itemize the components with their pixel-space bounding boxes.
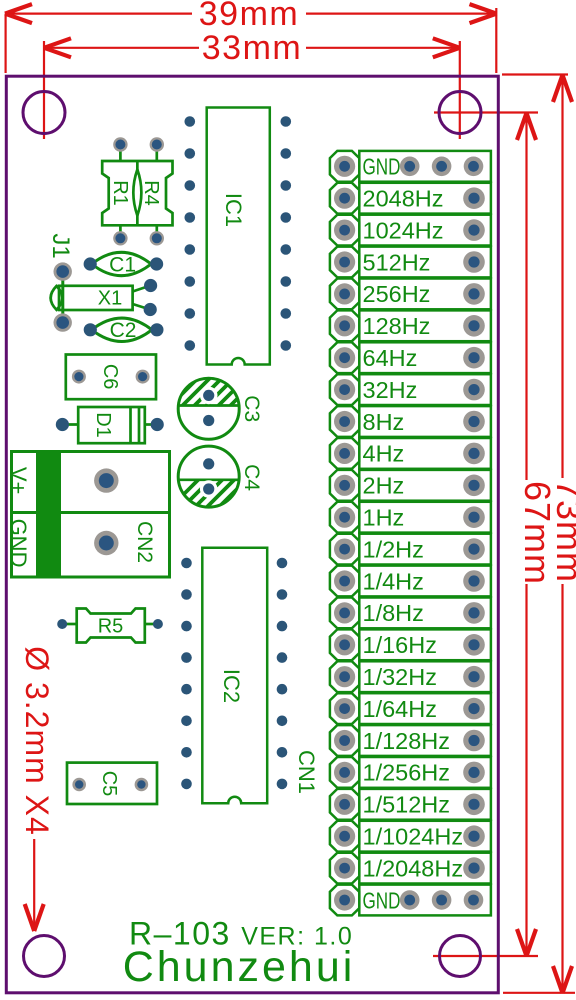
- svg-text:R1: R1: [109, 180, 131, 206]
- connector CN1 row GND pin pad: [334, 889, 355, 910]
- svg-text:R4: R4: [140, 180, 162, 206]
- svg-text:1/2048Hz: 1/2048Hz: [363, 855, 464, 881]
- svg-text:1024Hz: 1024Hz: [363, 217, 444, 243]
- svg-text:J1: J1: [47, 233, 74, 258]
- resistor R5 body: [62, 609, 158, 643]
- diode D1 pads: [56, 418, 164, 431]
- dimension 33mm line: [44, 41, 460, 139]
- connector CN1 row 1-2Hz outline: [330, 534, 491, 565]
- hole diameter leader arrowhead: [25, 904, 44, 931]
- connector CN1 row 2048Hz outline: [330, 183, 491, 214]
- svg-text:V+: V+: [6, 467, 31, 495]
- svg-text:CN1: CN1: [294, 750, 319, 794]
- mounting hole bottom-left: [24, 936, 65, 977]
- dimension 33mm arrowheads: [44, 38, 460, 57]
- svg-text:256Hz: 256Hz: [363, 281, 431, 307]
- dimension 39mm arrowheads: [5, 4, 497, 23]
- connector CN1 row GND ground pads: [400, 890, 483, 910]
- connector CN1 row 512Hz outline: [330, 247, 491, 278]
- svg-text:128Hz: 128Hz: [363, 313, 431, 339]
- connector CN1 row 1-128Hz right pad: [463, 730, 485, 752]
- connector CN1 row 1-16Hz right pad: [463, 634, 485, 656]
- connector CN1 row 1-128Hz pin pad: [334, 730, 355, 751]
- connector CN1 row 2Hz pin pad: [334, 475, 355, 496]
- connector CN1 row 128Hz pin pad: [334, 315, 355, 336]
- svg-text:1Hz: 1Hz: [363, 505, 405, 531]
- connector CN1 row 1-128Hz outline: [330, 725, 491, 756]
- connector CN1 row 1Hz outline: [330, 502, 491, 533]
- resistor R1 R4 leads: [120, 145, 156, 239]
- connector CN1 row 1-4Hz outline: [330, 566, 491, 597]
- capacitor C6 body: [66, 355, 156, 400]
- mounting hole top-right: [439, 92, 481, 134]
- connector CN1 row 1-512Hz outline: [330, 789, 491, 820]
- connector CN1 row 1-2048Hz pin pad: [334, 858, 355, 879]
- connector CN1 row 2048Hz pin pad: [334, 188, 355, 209]
- resistor R1 R4 body: [102, 161, 172, 225]
- connector CN1 row 64Hz pin pad: [334, 347, 355, 368]
- svg-text:1/32Hz: 1/32Hz: [363, 664, 437, 690]
- jumper J1 wire: [61, 272, 64, 323]
- connector CN1 row 1-1024Hz outline: [330, 821, 491, 852]
- connector CN1 row 512Hz right pad: [463, 251, 485, 273]
- connector CN1 row 1-32Hz outline: [330, 661, 491, 692]
- svg-text:2Hz: 2Hz: [363, 473, 405, 499]
- connector CN1 row 1-4Hz right pad: [463, 570, 485, 592]
- connector CN1 row 8Hz right pad: [463, 411, 485, 433]
- connector CN1 row 1-32Hz right pad: [463, 666, 485, 688]
- connector CN1 row 128Hz outline: [330, 310, 491, 341]
- dimension 67mm arrowheads: [517, 113, 536, 956]
- connector CN1 row GND pin pad: [334, 156, 355, 177]
- svg-text:C1: C1: [109, 253, 136, 276]
- svg-text:Ø 3.2mm X4: Ø 3.2mm X4: [19, 646, 55, 836]
- svg-text:CN2: CN2: [133, 521, 156, 563]
- svg-text:1/512Hz: 1/512Hz: [363, 792, 451, 818]
- connector CN1 row 64Hz right pad: [463, 347, 485, 369]
- connector CN1 row 2Hz outline: [330, 470, 491, 501]
- svg-text:1/8Hz: 1/8Hz: [363, 600, 424, 626]
- resistor R5 pads: [57, 619, 163, 629]
- svg-text:C4: C4: [240, 464, 263, 491]
- dimension 73mm arrowheads: [553, 75, 572, 993]
- connector CN1 row 256Hz outline: [330, 279, 491, 310]
- capacitor C4 pad clearance: [200, 480, 218, 498]
- svg-text:1/1024Hz: 1/1024Hz: [363, 824, 464, 850]
- connector CN1 row 1-64Hz outline: [330, 693, 491, 724]
- diode D1 body: [62, 407, 157, 443]
- crystal X1 pads: [144, 279, 158, 316]
- connector CN1 row 1-2048Hz outline: [330, 853, 491, 884]
- connector CN1 row 1-64Hz right pad: [463, 698, 485, 720]
- svg-text:1/64Hz: 1/64Hz: [363, 696, 437, 722]
- connector CN1 row 1-256Hz pin pad: [334, 762, 355, 783]
- svg-text:GND: GND: [363, 154, 401, 180]
- capacitor C5 body: [67, 763, 157, 804]
- capacitor C4 pads: [203, 458, 214, 494]
- connector CN1 row 1-8Hz pin pad: [334, 602, 355, 623]
- svg-text:GND: GND: [363, 887, 401, 913]
- connector CN1 row 256Hz pin pad: [334, 283, 355, 304]
- IC2 pads left: [181, 558, 192, 790]
- connector CN1 row 1-2048Hz right pad: [463, 857, 485, 879]
- IC1 body: [207, 108, 270, 365]
- svg-text:GND: GND: [6, 519, 31, 568]
- IC1 pads right: [281, 116, 292, 351]
- connector CN1 row 32Hz outline: [330, 374, 491, 405]
- svg-text:1/16Hz: 1/16Hz: [363, 632, 437, 658]
- connector CN1 row 2Hz right pad: [463, 475, 485, 497]
- svg-text:64Hz: 64Hz: [363, 345, 418, 371]
- svg-text:C5: C5: [98, 771, 120, 797]
- terminal CN2 pad 1: [94, 468, 118, 492]
- IC2 body: [202, 548, 267, 804]
- board outline: [6, 76, 498, 993]
- connector CN1 row GND outline: [330, 151, 491, 182]
- svg-text:IC1: IC1: [221, 193, 246, 227]
- svg-text:Chunzehui: Chunzehui: [123, 943, 356, 991]
- svg-text:R5: R5: [98, 616, 124, 638]
- connector CN1 row 1-256Hz outline: [330, 757, 491, 788]
- dimension 73mm line: [502, 75, 575, 994]
- crystal X1 body: [51, 286, 149, 310]
- connector CN1 row 1-8Hz outline: [330, 598, 491, 629]
- connector CN1 row 1-64Hz pin pad: [334, 698, 355, 719]
- connector CN1 row 1-512Hz pin pad: [334, 794, 355, 815]
- connector CN1 row 1Hz right pad: [463, 506, 485, 528]
- connector CN1 row 1-1024Hz right pad: [463, 825, 485, 847]
- capacitor C5 pads: [72, 778, 148, 792]
- svg-text:1/2Hz: 1/2Hz: [363, 536, 424, 562]
- connector CN1 row GND outline: [330, 885, 491, 916]
- dimension 39mm line: [5, 8, 497, 73]
- capacitor C2 body: [92, 318, 152, 341]
- svg-text:1/4Hz: 1/4Hz: [363, 568, 424, 594]
- capacitor C6 pads: [72, 370, 150, 384]
- connector CN1 row 1024Hz pin pad: [334, 220, 355, 241]
- connector CN1 row 1-8Hz right pad: [463, 602, 485, 624]
- svg-text:8Hz: 8Hz: [363, 409, 405, 435]
- svg-text:1/128Hz: 1/128Hz: [363, 728, 451, 754]
- svg-text:D1: D1: [92, 412, 114, 438]
- terminal block CN2 body: [12, 452, 170, 578]
- connector CN1 row 1-512Hz right pad: [463, 794, 485, 816]
- connector CN1 row 1-256Hz right pad: [463, 762, 485, 784]
- svg-text:4Hz: 4Hz: [363, 441, 405, 467]
- connector CN1 row 32Hz right pad: [463, 379, 485, 401]
- svg-text:33mm: 33mm: [202, 29, 302, 67]
- connector CN1 row 4Hz outline: [330, 438, 491, 469]
- capacitor C3 pad clearance: [200, 387, 218, 405]
- svg-text:C6: C6: [99, 364, 121, 390]
- resistor R4 pads: [150, 137, 164, 245]
- connector CN1 row 8Hz outline: [330, 406, 491, 437]
- capacitor C1 pads: [84, 257, 164, 270]
- connector CN1 row 1024Hz right pad: [463, 219, 485, 241]
- svg-text:512Hz: 512Hz: [363, 249, 431, 275]
- terminal block CN2 bar: [36, 452, 61, 578]
- connector CN1 row 1-16Hz pin pad: [334, 634, 355, 655]
- connector CN1 row 4Hz pin pad: [334, 443, 355, 464]
- capacitor C2 pads: [84, 323, 164, 336]
- connector CN1 row 4Hz right pad: [463, 443, 485, 465]
- svg-text:32Hz: 32Hz: [363, 377, 418, 403]
- connector CN1 row 8Hz pin pad: [334, 411, 355, 432]
- svg-text:1/256Hz: 1/256Hz: [363, 760, 451, 786]
- connector CN1 row 1-32Hz pin pad: [334, 666, 355, 687]
- connector CN1 row 128Hz right pad: [463, 315, 485, 337]
- connector CN1 row 1024Hz outline: [330, 215, 491, 246]
- svg-text:X1: X1: [98, 288, 122, 310]
- connector CN1 row 1-4Hz pin pad: [334, 570, 355, 591]
- jumper J1 pad 1: [54, 262, 72, 280]
- svg-text:C2: C2: [110, 319, 137, 342]
- resistor R1 pads: [113, 137, 127, 245]
- connector CN1 row 1Hz pin pad: [334, 507, 355, 528]
- capacitor C1 body: [92, 252, 151, 275]
- capacitor C3 pads: [203, 390, 214, 426]
- svg-text:C3: C3: [240, 395, 263, 422]
- connector CN1 row 32Hz pin pad: [334, 379, 355, 400]
- svg-text:67mm: 67mm: [517, 481, 558, 585]
- connector CN1 row 1-2Hz pin pad: [334, 539, 355, 560]
- connector CN1 row 1-2Hz right pad: [463, 538, 485, 560]
- IC1 pads left: [185, 116, 196, 351]
- jumper J1 pad 2: [54, 313, 72, 331]
- connector CN1 row 1-1024Hz pin pad: [334, 826, 355, 847]
- terminal CN2 pad 2: [94, 531, 118, 555]
- IC2 pads right: [277, 558, 288, 790]
- connector CN1 row 256Hz right pad: [463, 283, 485, 305]
- connector CN1 row 64Hz outline: [330, 342, 491, 373]
- connector CN1 row 512Hz pin pad: [334, 251, 355, 272]
- connector CN1 row 2048Hz right pad: [463, 187, 485, 209]
- connector CN1 row 1-16Hz outline: [330, 629, 491, 660]
- mounting hole bottom-right: [440, 936, 481, 977]
- connector CN1 row GND ground pads: [400, 157, 483, 177]
- svg-text:2048Hz: 2048Hz: [363, 186, 444, 212]
- dimension 67mm line: [433, 113, 538, 957]
- hole diameter leader line: [33, 839, 35, 930]
- svg-text:IC2: IC2: [219, 669, 244, 703]
- mounting hole top-left: [23, 92, 65, 134]
